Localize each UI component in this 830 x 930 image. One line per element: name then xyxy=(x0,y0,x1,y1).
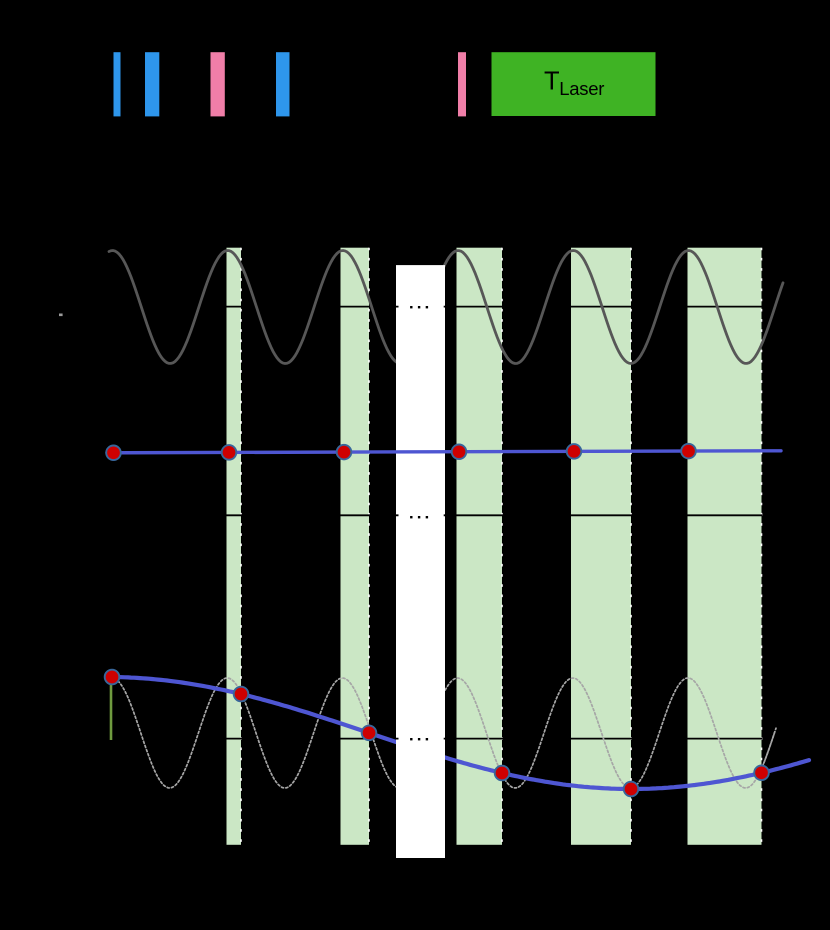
time-axis break white band xyxy=(396,265,445,858)
sample instant dashed line 4 xyxy=(630,248,632,845)
bottom sample dot xyxy=(234,687,249,702)
middle sampled constant line xyxy=(107,451,781,453)
mean line segment across break xyxy=(396,514,445,516)
legend bar pink thin xyxy=(458,52,466,116)
legend bar blue wide 2 xyxy=(276,52,290,116)
mean line segment across break xyxy=(396,738,445,740)
middle sample dot xyxy=(106,446,121,461)
bottom sample dot xyxy=(105,670,120,685)
bottom fast aliased sine (dashed) xyxy=(110,678,776,788)
middle row mean line xyxy=(226,514,763,516)
sample instant dashed line 1 xyxy=(240,248,242,845)
sampling gate band 5 xyxy=(688,248,762,845)
ellipsis dots xyxy=(410,516,412,518)
middle sample dot xyxy=(681,444,696,459)
gray speck xyxy=(59,314,63,317)
bottom sample dot xyxy=(754,766,769,781)
ellipsis background box xyxy=(399,732,444,746)
top row mean line xyxy=(226,306,763,308)
solid tail of fast sine xyxy=(763,731,775,765)
sampling gate band 2 xyxy=(341,248,370,845)
sample instant dashed line 5 xyxy=(761,248,763,845)
bottom slow reconstructed envelope curve xyxy=(107,677,809,789)
laser period box xyxy=(492,52,656,116)
middle sample dot xyxy=(337,445,352,460)
sampling gate band 1 xyxy=(227,248,242,845)
bottom sample dot xyxy=(495,766,510,781)
middle sample dot xyxy=(567,444,582,459)
mean line segment across break xyxy=(396,306,445,308)
ellipsis dots xyxy=(410,738,412,740)
ellipsis background box xyxy=(399,300,444,314)
sample instant dashed line 3 xyxy=(501,248,503,845)
sampling gate band 4 xyxy=(571,248,631,845)
legend bar blue thin xyxy=(114,52,121,116)
legend bar pink xyxy=(211,52,225,116)
top input sine wave xyxy=(109,251,783,364)
legend bar blue wide 1 xyxy=(145,52,159,116)
bottom row mean line xyxy=(226,738,763,740)
ellipsis background box xyxy=(399,510,444,524)
sampling gate band 3 xyxy=(457,248,503,845)
green sample arrow xyxy=(110,681,113,740)
sample instant dashed line 2 xyxy=(368,248,370,845)
bottom sample dot xyxy=(624,782,639,797)
ellipsis dots xyxy=(410,306,412,308)
middle sample dot xyxy=(452,445,467,460)
bottom sample dot xyxy=(362,726,377,741)
middle sample dot xyxy=(222,445,237,460)
